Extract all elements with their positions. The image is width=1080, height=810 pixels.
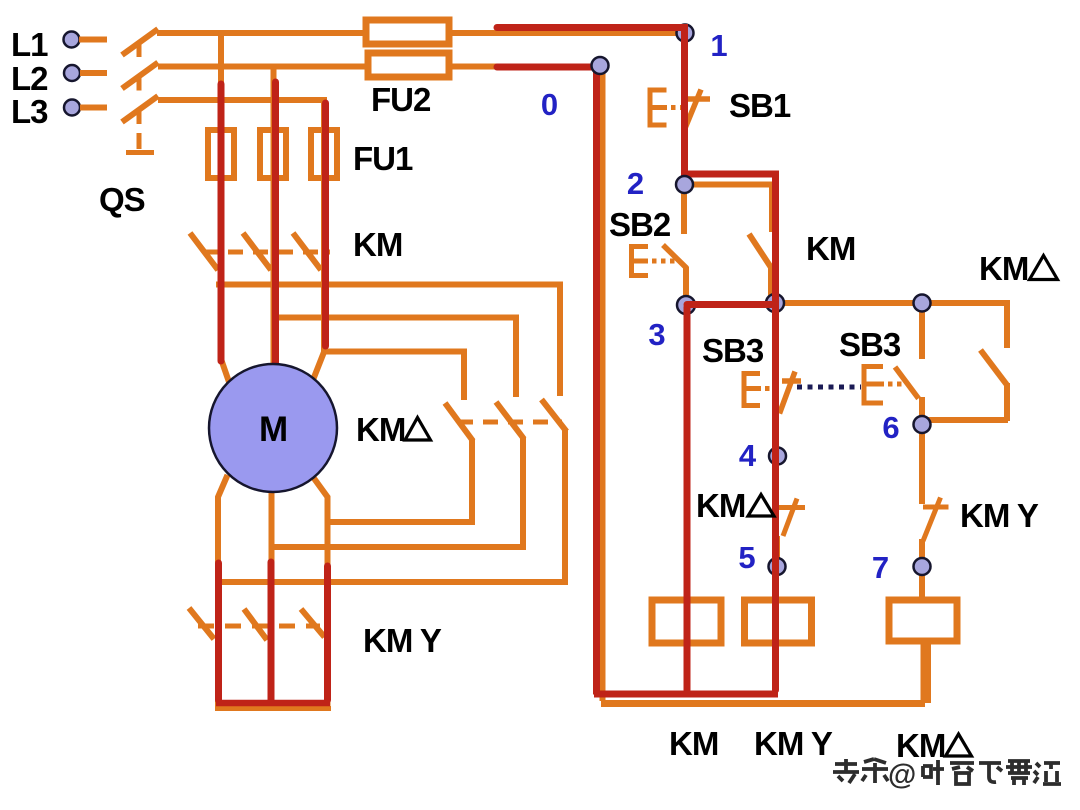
svg-text:7: 7: [872, 550, 889, 585]
svg-text:SB3: SB3: [839, 326, 901, 363]
svg-text:1: 1: [710, 28, 727, 63]
svg-text:QS: QS: [99, 181, 145, 218]
svg-text:KM Y: KM Y: [363, 622, 442, 659]
svg-text:FU1: FU1: [353, 140, 413, 177]
svg-text:SB2: SB2: [609, 206, 671, 243]
svg-text:KM: KM: [356, 411, 405, 448]
svg-text:2: 2: [627, 166, 644, 201]
svg-text:5: 5: [738, 540, 755, 575]
svg-text:3: 3: [648, 317, 665, 352]
svg-text:0: 0: [541, 87, 558, 122]
svg-text:L1: L1: [11, 26, 48, 63]
svg-text:KM: KM: [806, 230, 855, 267]
svg-text:KM: KM: [979, 250, 1028, 287]
svg-text:KM Y: KM Y: [754, 725, 833, 762]
svg-text:SB3: SB3: [702, 332, 764, 369]
svg-text:L3: L3: [11, 93, 48, 130]
svg-text:L2: L2: [11, 60, 48, 97]
svg-text:6: 6: [882, 410, 899, 445]
svg-text:KM: KM: [353, 226, 402, 263]
svg-text:@: @: [888, 759, 916, 791]
svg-text:4: 4: [739, 438, 757, 473]
svg-text:M: M: [259, 410, 287, 449]
svg-text:KM Y: KM Y: [960, 497, 1039, 534]
svg-text:KM: KM: [669, 725, 718, 762]
svg-text:SB1: SB1: [729, 87, 791, 124]
svg-text:KM: KM: [696, 487, 745, 524]
svg-text:FU2: FU2: [371, 81, 431, 118]
